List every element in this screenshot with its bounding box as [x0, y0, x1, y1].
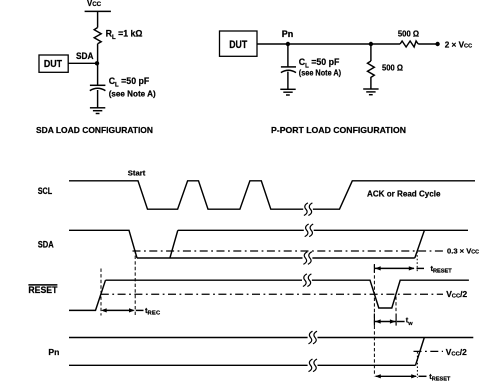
SDA waveform high then fall — [69, 230, 137, 258]
junction dot SDA node — [95, 61, 99, 65]
arrow tw (RESET pulse width) — [374, 314, 404, 326]
svg-text:(see Note A): (see Note A) — [109, 89, 156, 98]
wire capacitor to ground — [97, 90, 99, 108]
svg-text:RESET: RESET — [28, 285, 57, 296]
svg-text:500 Ω: 500 Ω — [398, 29, 419, 39]
svg-text:SDA: SDA — [76, 51, 94, 61]
DUT box (right) — [220, 31, 258, 56]
svg-text:DUT: DUT — [229, 39, 247, 51]
break mark Pn top line — [309, 331, 318, 344]
power VCC rail bar — [85, 10, 111, 12]
wire Pn junction to capacitor CL — [287, 44, 289, 67]
RESET high line, pulse low, and tail — [312, 280, 469, 308]
resistor RL zigzag — [94, 28, 101, 44]
svg-text:VCC: VCC — [87, 0, 102, 8]
SDA low line right of break — [312, 257, 414, 259]
svg-text:SCL: SCL — [38, 186, 53, 197]
label RESET with overline — [28, 285, 57, 296]
vertical dashed reference at RESET falling edge — [373, 264, 375, 376]
Pn bottom line right of break — [318, 364, 416, 366]
break mark RESET high line — [303, 274, 312, 287]
RESET high line left of break — [106, 279, 303, 281]
svg-text:500 Ω: 500 Ω — [382, 63, 403, 73]
vertical dashed reference at RESET pulse rise — [395, 297, 397, 314]
break mark SDA low line — [303, 252, 312, 265]
threshold line 0.3 x VCC dash-dot — [133, 250, 444, 252]
label tw — [406, 315, 414, 326]
SDA high line left of break — [178, 229, 304, 231]
label VCC/2 (Pn row) — [446, 347, 467, 357]
SDA final rising edge through 0.3 VCC — [415, 230, 425, 258]
wire capacitor to ground (right cap) — [287, 72, 289, 90]
power VCC label — [87, 0, 102, 8]
label CL = 50 pF (right) — [299, 57, 340, 70]
arrow tRESET (top) — [374, 264, 424, 272]
wire junction to vertical resistor — [370, 44, 372, 61]
arrow tREC — [101, 308, 144, 312]
break mark SCL low line — [304, 203, 313, 216]
junction dot at 500 ohm divider — [369, 42, 373, 46]
vertical dotted reference at Pn rise (lower) — [416, 352, 418, 378]
capacitor CL plates — [90, 85, 106, 90]
wire VCC bar to resistor RL — [97, 11, 99, 27]
wire resistor to 2xVCC terminal — [418, 43, 436, 45]
resistor 500 ohm vertical — [368, 61, 375, 80]
SDA low line left of break — [137, 257, 303, 259]
SCL waveform left of break — [69, 181, 303, 209]
terminal dot 2xVCC — [435, 42, 439, 46]
wire junction to capacitor CL — [97, 63, 99, 85]
svg-text:ACK or Read Cycle: ACK or Read Cycle — [367, 188, 441, 198]
SDA rising edge (left, after start condition) — [170, 230, 178, 258]
label tRESET (bottom) — [429, 372, 451, 383]
label RL = 1 kOhm — [106, 28, 143, 41]
Pn bottom line left of break — [69, 364, 308, 366]
capacitor CL plates (right) — [281, 67, 296, 73]
break mark SDA high line — [305, 224, 314, 237]
Pn top line right of break — [318, 337, 474, 339]
vertical dashed reference at RESET rising edge — [100, 269, 102, 316]
wire DUT to SDA junction — [68, 62, 97, 64]
resistor 500 ohm horizontal — [400, 41, 418, 47]
svg-text:SDA: SDA — [38, 239, 54, 250]
wire DUT to horizontal resistor — [257, 43, 400, 45]
vertical dotted reference at SDA final rise (upper) — [416, 252, 418, 273]
Pn rising edge through VCC/2 — [416, 338, 425, 366]
break mark Pn bottom line — [309, 359, 318, 372]
label VCC/2 (RESET row) — [446, 289, 467, 299]
ground (under 500 ohm resistor) — [363, 89, 378, 95]
SCL waveform right of break — [313, 181, 475, 209]
svg-text:(see Note A): (see Note A) — [299, 69, 342, 78]
label CL = 50 pF — [109, 76, 150, 89]
threshold VCC/2 dash-dot (Pn row) — [414, 350, 444, 352]
junction dot Pn node — [286, 42, 290, 46]
RESET waveform low then rise — [69, 280, 106, 310]
wire vertical resistor to ground — [370, 80, 372, 89]
threshold line VCC/2 dash-dot (RESET row) — [101, 293, 443, 295]
vertical dashed reference at SDA falling edge — [134, 250, 136, 316]
DUT box (left) — [39, 55, 68, 72]
arrow tRESET (bottom) — [375, 374, 427, 378]
svg-text:SDA LOAD CONFIGURATION: SDA LOAD CONFIGURATION — [36, 125, 153, 135]
svg-text:P-PORT LOAD CONFIGURATION: P-PORT LOAD CONFIGURATION — [271, 125, 406, 135]
svg-text:Pn: Pn — [282, 29, 294, 39]
label 0.3 x VCC — [447, 246, 479, 255]
label tREC — [145, 306, 161, 317]
svg-text:Pn: Pn — [48, 347, 59, 357]
SDA high line right of break — [314, 229, 468, 231]
ground (left circuit) — [90, 108, 105, 114]
label tRESET (top) — [431, 264, 453, 275]
wire resistor RL to node SDA — [97, 44, 99, 64]
label 2 x VCC — [445, 40, 472, 49]
svg-text:Start: Start — [128, 170, 146, 177]
svg-text:DUT: DUT — [44, 59, 62, 70]
Pn top line left of break — [69, 337, 308, 339]
ground (under right capacitor) — [280, 89, 295, 95]
